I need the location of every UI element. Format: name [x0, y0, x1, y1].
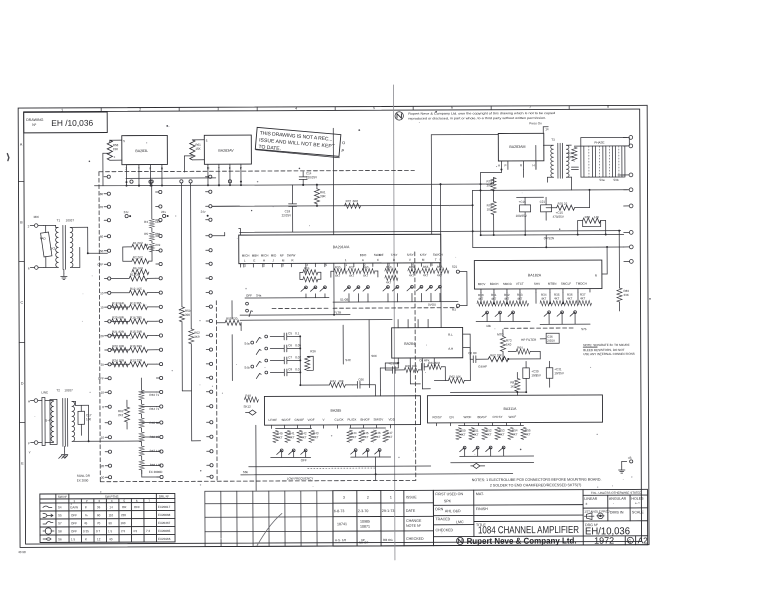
svg-text:M: M	[207, 166, 210, 170]
svg-text:LINEAR: LINEAR	[584, 497, 597, 501]
resistor R64	[516, 349, 530, 354]
resistor	[385, 275, 398, 280]
ground	[619, 467, 625, 473]
resistor 4K7	[436, 268, 449, 273]
svg-text:4K7: 4K7	[301, 435, 307, 439]
svg-text:4K7: 4K7	[541, 297, 547, 301]
svg-text:NF: NF	[280, 253, 284, 257]
wire upper rail	[126, 177, 216, 179]
svg-text:6-8-73: 6-8-73	[334, 509, 344, 513]
svg-text:30: 30	[100, 363, 104, 367]
svg-text:D: D	[393, 258, 396, 262]
resistor 4K7	[273, 430, 278, 442]
svg-text:10K: 10K	[338, 379, 343, 383]
wire	[111, 277, 129, 279]
wire	[184, 155, 192, 157]
svg-text:RO/SY: RO/SY	[433, 415, 442, 419]
node pin circles above bus	[130, 180, 133, 183]
resistor network (mic gain)	[303, 270, 318, 275]
ground	[61, 451, 67, 457]
node output terminals	[623, 136, 629, 138]
wire secondary leads	[70, 226, 87, 228]
svg-text:10: 10	[100, 306, 104, 310]
resistor R18	[112, 304, 129, 309]
svg-text:V: V	[409, 258, 411, 262]
svg-text:NK·O?: NK·O?	[359, 541, 369, 545]
svg-text:60: 60	[97, 513, 101, 517]
svg-text:H: H	[28, 400, 30, 404]
svg-text:160: 160	[120, 521, 125, 525]
svg-text:39R: 39R	[320, 194, 326, 198]
svg-text:A: A	[362, 258, 364, 262]
resistor 4K7	[422, 268, 435, 273]
resistor R64	[139, 404, 144, 414]
company line	[456, 537, 463, 544]
svg-text:Nº: Nº	[32, 123, 37, 127]
wire	[469, 334, 471, 359]
svg-text:reproduced or disclosed, in pa: reproduced or disclosed, in part or whol…	[408, 116, 546, 121]
switch contact	[396, 286, 399, 289]
svg-text:OFF: OFF	[134, 505, 140, 509]
svg-text:GN/OF: GN/OF	[295, 418, 305, 422]
resistor R70 22	[557, 205, 575, 210]
svg-text:0 35: 0 35	[83, 529, 89, 533]
resistor R55 520	[225, 320, 241, 325]
svg-text:1 5: 1 5	[108, 529, 113, 533]
svg-text:EX 2000: EX 2000	[77, 478, 89, 482]
svg-text:470/25V: 470/25V	[553, 215, 564, 219]
resistor 4K7	[521, 427, 526, 439]
node S21	[456, 270, 459, 273]
svg-text:BDO: BDO	[360, 253, 367, 257]
svg-text:MICV: MICV	[478, 282, 486, 286]
svg-text:R14 3B5: R14 3B5	[130, 315, 142, 319]
resistor R15	[129, 333, 147, 338]
wire	[111, 335, 129, 337]
svg-text:12: 12	[97, 537, 101, 541]
svg-text:OFF: OFF	[71, 521, 77, 525]
svg-text:1K5: 1K5	[155, 220, 161, 224]
resistor 4K7	[566, 301, 579, 306]
svg-text:Rupert Neve & Company Ltd.: Rupert Neve & Company Ltd.	[467, 535, 577, 545]
svg-text:+C1 HF: +C1 HF	[388, 361, 399, 365]
svg-text:S5: S5	[58, 513, 62, 517]
svg-text:S/SY: S/SY	[407, 253, 414, 257]
wire bus	[450, 391, 526, 393]
module boundary inner (dashed)	[215, 301, 218, 481]
svg-text:3K9: 3K9	[194, 335, 200, 339]
wire terminal feeders	[618, 174, 624, 176]
svg-text:4K7: 4K7	[512, 432, 518, 436]
svg-text:-20: -20	[100, 464, 105, 468]
resistor R75 390	[491, 178, 496, 191]
svg-text:40 98: 40 98	[18, 550, 26, 554]
1st angle projection symbol	[584, 513, 604, 520]
resistor R11	[129, 276, 147, 281]
svg-text:R3: R3	[144, 220, 148, 224]
svg-text:R80: R80	[585, 215, 591, 219]
svg-text:1 5: 1 5	[71, 537, 76, 541]
svg-text:CHECKED: CHECKED	[406, 537, 424, 541]
svg-text:W/CF: W/CF	[509, 415, 517, 419]
resistor R81 1K5	[515, 378, 520, 391]
svg-text:2 SOLDER TO END CHAMFERED/RECE: 2 SOLDER TO END CHAMFERED/RECESSED SKTS(…	[490, 483, 582, 487]
svg-text:R60 10K: R60 10K	[405, 364, 417, 368]
resistor 4K7	[477, 301, 490, 306]
svg-text:10985: 10985	[360, 520, 370, 524]
wire bus vertical A	[180, 183, 183, 307]
resistor R50 390	[179, 307, 184, 322]
svg-text:R6 1K8: R6 1K8	[133, 266, 143, 270]
svg-text:4K7: 4K7	[363, 274, 369, 278]
svg-text:EX 2000D: EX 2000D	[149, 470, 164, 474]
svg-text:V/OF: V/OF	[308, 418, 315, 422]
svg-text:SGNL DR: SGNL DR	[77, 474, 91, 478]
resistor R80 140	[583, 218, 601, 223]
resistor 4K7	[553, 301, 566, 306]
module BA311A	[427, 395, 602, 423]
svg-text:15K: 15K	[195, 147, 200, 151]
attenuator pad	[41, 232, 52, 257]
'not a record' stamp	[255, 127, 346, 158]
svg-text:VDD: VDD	[389, 417, 396, 421]
svg-text:R23 10R: R23 10R	[112, 344, 125, 348]
wire loom top/bottom rails	[574, 145, 627, 147]
transformer T1 core	[62, 225, 64, 269]
resistor 4K7	[297, 430, 302, 442]
svg-text:MTBN: MTBN	[548, 282, 557, 286]
svg-text:4K7: 4K7	[525, 432, 531, 436]
svg-text:F: F	[28, 442, 30, 446]
resistor 4K7	[309, 430, 314, 442]
junction dots on main bus	[125, 185, 127, 187]
node 24v feeds	[125, 215, 128, 218]
svg-text:R64 71: R64 71	[149, 407, 159, 411]
svg-text:14: 14	[545, 127, 549, 131]
svg-text:S8: S8	[58, 529, 62, 533]
svg-text:OFF: OFF	[71, 529, 77, 533]
switch contact	[411, 285, 414, 288]
resistor R58 15K	[107, 140, 112, 160]
svg-text:AHL O&D: AHL O&D	[445, 509, 461, 513]
copyright note circle-N	[395, 112, 403, 120]
svg-text:-50: -50	[99, 249, 104, 253]
svg-text:L: L	[244, 259, 246, 263]
svg-text:4K7: 4K7	[375, 435, 381, 439]
svg-text:S1-0B: S1-0B	[340, 298, 348, 302]
wire verticals under BA291	[344, 267, 346, 271]
svg-text:6K8: 6K8	[353, 199, 359, 203]
svg-text:⅜: ⅜	[85, 513, 88, 517]
diamond test point	[473, 463, 480, 468]
svg-text:1: 1	[390, 495, 392, 499]
wire	[231, 301, 233, 319]
svg-text:S21: S21	[452, 265, 458, 269]
svg-text:5-4: 5-4	[46, 418, 51, 422]
svg-text:CHI SY: CHI SY	[493, 415, 503, 419]
wire	[375, 457, 377, 480]
switch contact	[265, 347, 268, 350]
switch S2 contact column	[159, 190, 162, 193]
svg-text:MICH: MICH	[261, 254, 269, 258]
switch contact	[354, 449, 357, 452]
resistor R41	[329, 382, 345, 387]
svg-text:BH/OF: BH/OF	[361, 418, 370, 422]
wire S6C vertical	[368, 320, 370, 388]
svg-text:220: 220	[121, 513, 126, 517]
svg-text:860: 860	[155, 232, 160, 236]
svg-text:R37: R37	[349, 265, 355, 269]
resistor R52 3K9	[189, 329, 194, 344]
svg-text:SW/OF: SW/OF	[374, 253, 384, 257]
svg-text:T/SY: T/SY	[391, 253, 398, 257]
svg-text:5: 5	[206, 139, 208, 143]
wire	[103, 152, 110, 154]
svg-text:4K7: 4K7	[423, 273, 429, 277]
svg-text:0V/S2N: 0V/S2N	[544, 236, 554, 240]
svg-text:1ST ANGLE PROJ: 1ST ANGLE PROJ	[584, 510, 610, 514]
svg-text:R48: R48	[245, 394, 251, 398]
svg-text:A.H: A.H	[448, 347, 453, 351]
svg-text:24v: 24v	[201, 210, 206, 214]
capacitor C22	[571, 167, 578, 169]
svg-text:R55: R55	[423, 265, 429, 269]
module BA291A/A	[239, 234, 441, 263]
svg-text:G4/HF: G4/HF	[478, 365, 487, 369]
resistor R13	[129, 304, 147, 309]
switch contact	[561, 311, 564, 314]
svg-text:4K7: 4K7	[351, 435, 357, 439]
svg-text:H: H	[161, 166, 163, 170]
svg-text:EX20068: EX20068	[158, 513, 171, 517]
svg-text:DRN: DRN	[435, 507, 443, 511]
wire	[111, 349, 129, 351]
svg-text:BA311A: BA311A	[503, 407, 517, 411]
wire pins top	[397, 320, 399, 328]
scan specks	[88, 110, 651, 472]
svg-text:1K0: 1K0	[506, 342, 512, 346]
svg-text:R62 10K: R62 10K	[490, 353, 502, 357]
module BA282A	[474, 260, 602, 289]
svg-text:+10: +10	[99, 391, 104, 395]
svg-text:LOW FREQUENCY: LOW FREQUENCY	[287, 477, 314, 481]
svg-text:R63 71: R63 71	[149, 393, 159, 397]
svg-text:R30: R30	[335, 265, 341, 269]
sheet border: inner frame	[24, 109, 642, 544]
switch contact	[348, 286, 351, 289]
svg-text:EX20065: EX20065	[158, 529, 171, 533]
svg-text:D: D	[21, 382, 24, 386]
resistor 4K7	[359, 430, 364, 442]
wire bus	[213, 205, 473, 206]
svg-text:M: M	[422, 258, 425, 262]
svg-text:R5: R5	[144, 232, 148, 236]
svg-text:P: P	[240, 166, 242, 170]
scan noise speckles	[33, 121, 633, 540]
resistor R21	[112, 333, 129, 338]
svg-text:R68 135: R68 135	[150, 463, 162, 467]
svg-text:R13 365: R13 365	[130, 301, 142, 305]
wire	[44, 224, 56, 226]
svg-text:BDCH: BDCH	[490, 282, 499, 286]
svg-text:BA283AV: BA283AV	[218, 149, 234, 153]
wire wiper stubs BA285	[281, 452, 283, 457]
wire cap bank collect	[299, 336, 301, 385]
svg-text:SCALE: SCALE	[632, 510, 644, 514]
wire FLTR bus	[240, 314, 350, 316]
svg-text:24v: 24v	[161, 210, 166, 214]
switch contact	[265, 371, 268, 374]
resistor 4K7	[383, 430, 388, 442]
capacitor C18 22/25V	[291, 185, 293, 203]
transformer T2 primary (split)	[51, 401, 54, 441]
resistor R23	[112, 347, 129, 352]
stray pen mark on grid	[257, 513, 282, 545]
wire	[182, 390, 191, 392]
svg-text:5: 5	[123, 139, 125, 143]
svg-text:4K7: 4K7	[277, 435, 283, 439]
svg-text:BA283L: BA283L	[135, 149, 148, 153]
svg-text:TMDCH: TMDCH	[576, 282, 587, 286]
wire	[500, 169, 502, 172]
svg-text:DRAWING: DRAWING	[26, 118, 43, 122]
svg-text:VTCT: VTCT	[516, 282, 524, 286]
svg-text:Y: Y	[218, 166, 220, 170]
wire bus	[94, 184, 493, 186]
resistor R73 1K0	[500, 336, 505, 351]
svg-text:R18 56R: R18 56R	[112, 301, 125, 305]
svg-text:W/OF: W/OF	[464, 415, 472, 419]
switch contact	[280, 449, 283, 452]
svg-text:MID: MID	[271, 253, 277, 257]
resistor 4K7	[482, 428, 487, 440]
svg-text:O: O	[342, 140, 346, 145]
svg-text:S7b: S7b	[581, 327, 587, 331]
symbol column glyphs	[43, 506, 54, 540]
capacitor C7	[270, 359, 284, 361]
svg-text:C6: C6	[288, 343, 292, 347]
svg-text:6: 6	[451, 106, 453, 110]
svg-text:A2: A2	[638, 535, 649, 545]
svg-text:1: 1	[61, 108, 63, 112]
op-amp module BA283AV	[204, 135, 251, 164]
svg-text:Y: Y	[138, 167, 140, 171]
switch contact	[292, 449, 295, 452]
wire pins BA291A	[243, 264, 245, 267]
svg-text:45: 45	[84, 521, 88, 525]
svg-text:R21 82R: R21 82R	[112, 330, 125, 334]
svg-text:LF/OF: LF/OF	[269, 418, 278, 422]
svg-text:B: B	[20, 221, 23, 225]
wire	[111, 306, 129, 308]
wire (page fold crease)	[393, 85, 396, 560]
svg-text:S7: S7	[58, 521, 62, 525]
resistor 4K7	[508, 427, 513, 439]
wire secondary leads	[72, 400, 75, 402]
svg-text:V: V	[323, 418, 325, 422]
svg-text:R15 39R: R15 39R	[130, 330, 143, 334]
svg-text:4K7: 4K7	[554, 297, 560, 301]
svg-text:K: K	[85, 537, 87, 541]
wire buses	[460, 455, 534, 457]
wire bus	[473, 246, 624, 249]
svg-text:R: R	[595, 274, 598, 278]
switch contact	[304, 449, 307, 452]
capacitor C36	[546, 333, 559, 343]
svg-text:R41: R41	[330, 379, 336, 383]
svg-text:29-1-73: 29-1-73	[382, 509, 394, 513]
svg-text:PAD: PAD	[40, 236, 47, 240]
svg-text:SW Nº: SW Nº	[58, 495, 68, 499]
svg-text:USE ANY INTERNAL CONNECTIONS: USE ANY INTERNAL CONNECTIONS	[583, 352, 635, 356]
node mic terminal cold	[35, 266, 39, 270]
svg-text:R12 1C5: R12 1C5	[130, 287, 142, 291]
svg-text:M: M	[282, 258, 285, 262]
svg-text:OR: OR	[122, 505, 127, 509]
svg-text:10937: 10937	[66, 218, 75, 222]
svg-text:EN: EN	[450, 415, 454, 419]
wire wiper stubs BA311A	[464, 449, 466, 456]
svg-text:1K2: 1K2	[50, 246, 56, 250]
svg-text:10871: 10871	[360, 525, 370, 529]
capacitor C8	[270, 371, 284, 373]
switch contact	[430, 285, 433, 288]
capacitor C31 10/35V	[546, 368, 553, 379]
capacitor C2	[422, 363, 425, 370]
node line terminal F	[34, 441, 38, 445]
wire	[333, 263, 335, 314]
op-amp module BA283L	[122, 135, 168, 164]
svg-text:ANGULAR: ANGULAR	[609, 497, 627, 501]
svg-text:OFF: OFF	[71, 513, 77, 517]
svg-text:S4b: S4b	[244, 366, 250, 370]
wire pins bottom	[397, 358, 399, 368]
svg-text:R2 2K2: R2 2K2	[133, 255, 143, 259]
switch contact	[489, 446, 492, 449]
resistor R14	[129, 319, 147, 324]
svg-text:100: 100	[487, 208, 492, 212]
svg-text:10741: 10741	[337, 522, 347, 526]
wire bus	[473, 189, 628, 192]
svg-text:MICH: MICH	[242, 254, 250, 258]
wire drop to lower edge	[255, 425, 257, 490]
svg-text:CHECKED: CHECKED	[435, 528, 453, 532]
svg-text:HOLES: HOLES	[631, 497, 644, 501]
resistor R67	[139, 446, 144, 456]
svg-text:C: C	[377, 258, 380, 262]
svg-text:SK12: SK12	[243, 405, 251, 409]
switch S1 gain contact column	[107, 175, 110, 178]
resistor R20	[112, 319, 129, 324]
svg-text:R3: R3	[452, 308, 456, 312]
svg-text:P: P	[505, 163, 507, 167]
capacitor C17	[78, 411, 85, 424]
svg-text:53a: 53a	[599, 178, 604, 182]
wire pin drops	[480, 293, 482, 304]
resistor R6 1K8	[132, 269, 149, 274]
svg-text:R16 3R9: R16 3R9	[130, 344, 142, 348]
svg-text:SE/OF: SE/OF	[282, 418, 291, 422]
svg-text:4K7: 4K7	[437, 273, 443, 277]
svg-text:DIMS IN: DIMS IN	[610, 510, 624, 514]
resistor 4K7	[408, 268, 421, 273]
wire line out to ladder	[89, 440, 142, 442]
svg-text:TRACED: TRACED	[435, 517, 450, 521]
svg-text:J: J	[272, 258, 274, 262]
wire	[192, 139, 204, 141]
svg-text:CHANGE: CHANGE	[406, 519, 422, 523]
svg-text:14: 14	[109, 505, 113, 509]
